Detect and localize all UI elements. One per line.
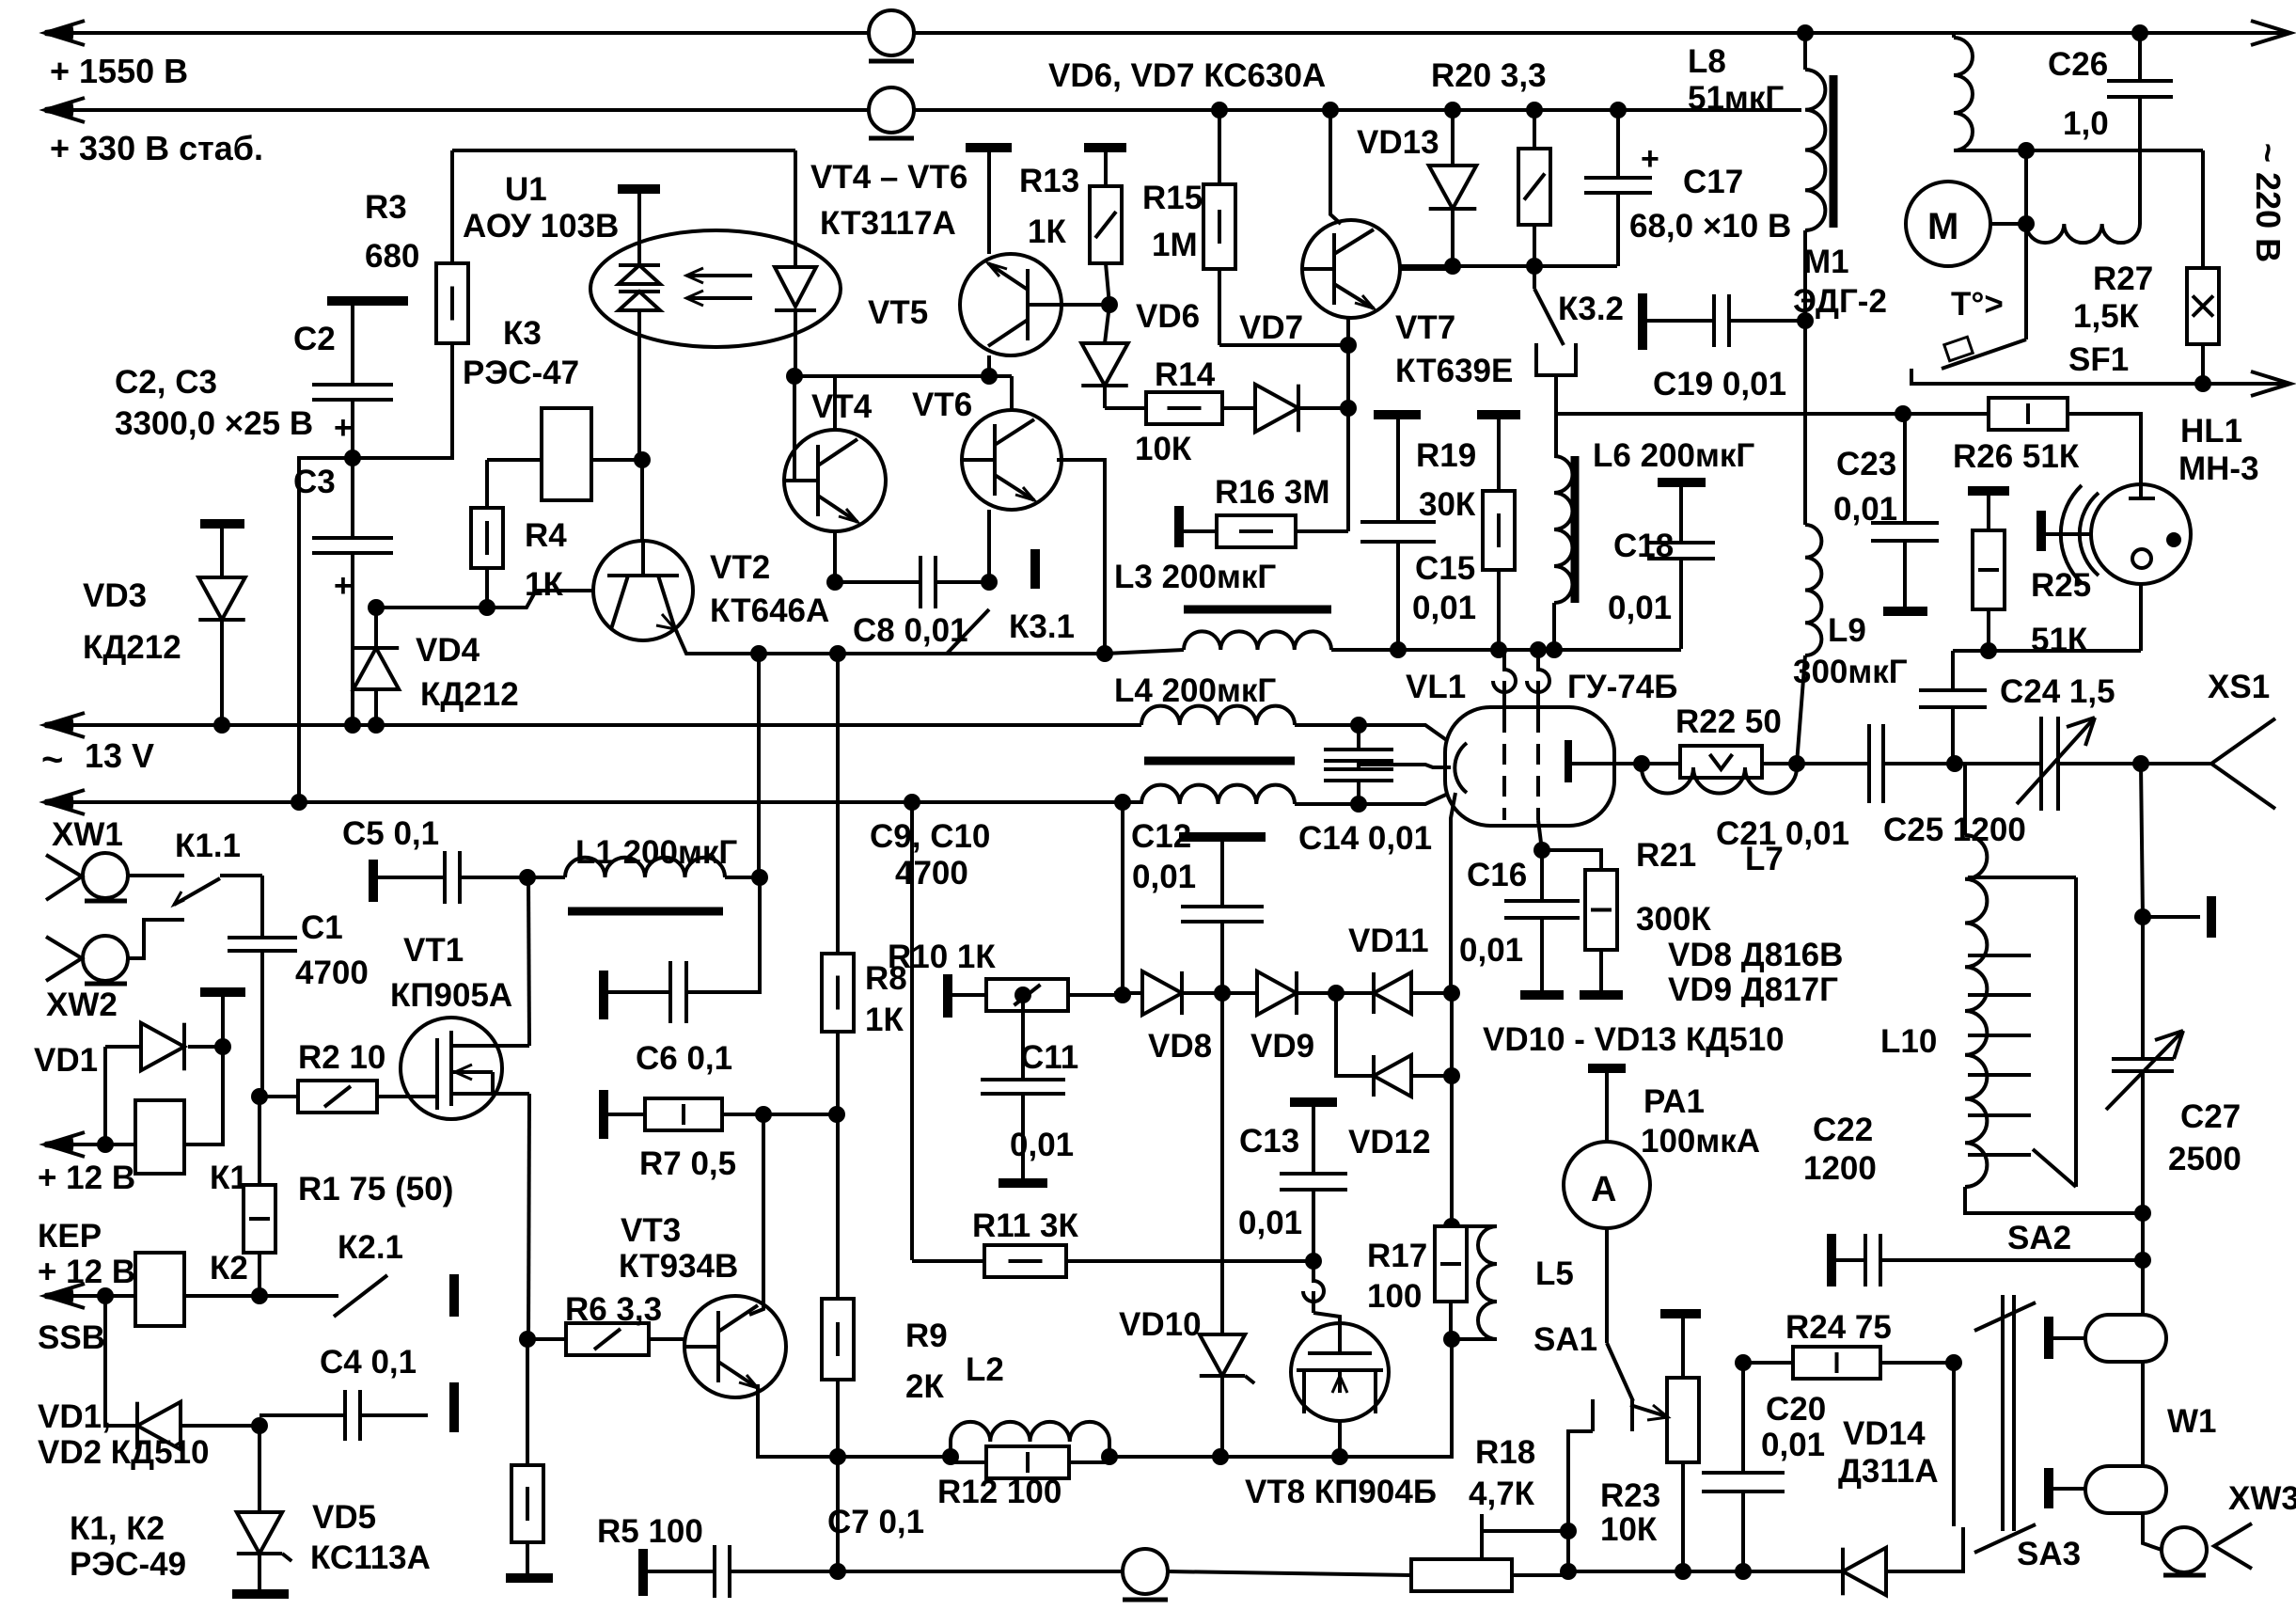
- wire VT3 collector: [749, 1114, 763, 1315]
- svg-text:R2 10: R2 10: [298, 1039, 385, 1076]
- junction: [1328, 985, 1345, 1002]
- chassis bar top right: [2143, 915, 2200, 919]
- svg-text:R22 50: R22 50: [1675, 703, 1782, 740]
- junction: [1675, 1563, 1691, 1580]
- transistor VT1: [401, 1018, 502, 1119]
- wire SA1 down: [1568, 1431, 1593, 1571]
- svg-text:С2, С3: С2, С3: [115, 364, 217, 401]
- svg-text:L10: L10: [1880, 1023, 1937, 1060]
- motor winding horizontal: [2026, 224, 2140, 243]
- junction: [344, 717, 361, 734]
- svg-text:R11 3К: R11 3К: [972, 1207, 1078, 1244]
- svg-text:SA1: SA1: [1533, 1321, 1597, 1358]
- junction: [828, 1106, 845, 1123]
- motor M1: [2024, 150, 2028, 224]
- svg-text:L6 200мкГ: L6 200мкГ: [1593, 437, 1754, 474]
- svg-text:+ 1550 В: + 1550 В: [50, 52, 188, 90]
- resistor R14: [1105, 406, 1146, 410]
- svg-text:R13: R13: [1019, 163, 1079, 199]
- inductor L4 top winding: [1141, 706, 1295, 725]
- svg-text:МН-3: МН-3: [2178, 450, 2259, 487]
- wire +12 KEP: [45, 1143, 135, 1146]
- transistor VT8: [1313, 1313, 1340, 1323]
- arrow right 220V bottom: [2251, 371, 2290, 396]
- inductor L1: [527, 876, 565, 879]
- grid2 feedthrough loop: [1527, 650, 1549, 692]
- svg-text:VD3: VD3: [83, 577, 147, 614]
- svg-text:КТ646А: КТ646А: [710, 592, 829, 629]
- neon lamp HL1: [2091, 484, 2191, 584]
- junction: [97, 1136, 114, 1153]
- svg-text:R24 75: R24 75: [1785, 1309, 1892, 1346]
- junction: [97, 1287, 114, 1304]
- wire VD1 to +12: [103, 1047, 107, 1144]
- svg-text:С27: С27: [2180, 1098, 2241, 1135]
- svg-text:VD4: VD4: [416, 632, 480, 669]
- wire grid line to L3: [1105, 650, 1184, 654]
- U1 photodiode: [775, 267, 816, 307]
- wire bottom bus 2: [1168, 1571, 1411, 1575]
- junction: [942, 1448, 959, 1465]
- wire C3 top: [351, 458, 354, 538]
- svg-text:L9: L9: [1828, 612, 1866, 649]
- junction: [826, 574, 843, 591]
- svg-text:С9, С10: С9, С10: [870, 818, 990, 855]
- svg-text:0,01: 0,01: [1761, 1427, 1825, 1463]
- junction: [1114, 794, 1131, 811]
- wire VT5 base: [1062, 303, 1109, 307]
- resistor R5: [526, 1339, 529, 1465]
- svg-text:К3.2: К3.2: [1558, 291, 1624, 327]
- junction: [1014, 987, 1031, 1003]
- svg-text:W1: W1: [2167, 1403, 2217, 1440]
- thermal switch SF1: [2024, 224, 2028, 339]
- svg-text:SA2: SA2: [2007, 1220, 2071, 1256]
- wire screen reg base line: [1400, 264, 1617, 268]
- svg-text:0,01: 0,01: [1132, 859, 1196, 895]
- resistor R27: [2201, 150, 2205, 268]
- junction: [1945, 1354, 1962, 1371]
- svg-text:R15: R15: [1142, 180, 1203, 216]
- VL1 bottom screen lead: [1538, 820, 1542, 850]
- L1 core: [568, 908, 723, 916]
- svg-text:С4 0,1: С4 0,1: [320, 1344, 417, 1381]
- junction: [2018, 215, 2035, 232]
- svg-text:К2.1: К2.1: [338, 1229, 403, 1266]
- junction: [1443, 1067, 1460, 1084]
- svg-text:VD9 Д817Г: VD9 Д817Г: [1668, 971, 1838, 1008]
- capacitor C13: [1290, 1097, 1337, 1107]
- resistor R1: [258, 1097, 261, 1185]
- svg-text:1К: 1К: [865, 1002, 904, 1038]
- grid1 feedthrough loop: [1493, 650, 1516, 692]
- resistor R3: [450, 150, 454, 263]
- junction: [1797, 24, 1814, 41]
- wire HL1 line: [1903, 412, 1989, 416]
- junction: [2134, 1252, 2151, 1269]
- diode VD6: [1105, 305, 1109, 343]
- svg-text:L1 200мкГ: L1 200мкГ: [575, 834, 737, 871]
- svg-text:XW3: XW3: [2228, 1480, 2296, 1517]
- svg-text:VD1: VD1: [34, 1042, 98, 1079]
- capacitor C3: [312, 536, 393, 540]
- svg-text:С24 1,5: С24 1,5: [2000, 673, 2115, 710]
- switch SA2: [2074, 877, 2078, 1187]
- svg-text:КТ3117А: КТ3117А: [820, 205, 956, 242]
- wire 220V bottom: [1911, 369, 2203, 384]
- chassis bar R21: [1580, 990, 1623, 1000]
- svg-text:С5 0,1: С5 0,1: [342, 815, 439, 852]
- inductor L3: [1184, 606, 1331, 614]
- svg-text:М1: М1: [1803, 244, 1849, 280]
- wire VT2e to L1 node: [757, 654, 761, 877]
- resistor R13: [1084, 143, 1126, 152]
- switch K1.1: [128, 874, 184, 877]
- wire to W1: [2141, 1213, 2145, 1315]
- svg-text:51мкГ: 51мкГ: [1688, 80, 1784, 117]
- svg-text:VD13: VD13: [1357, 124, 1439, 161]
- svg-text:~ 220 В: ~ 220 В: [2249, 143, 2288, 262]
- wire C3 bottom: [351, 553, 354, 725]
- wire VT4 collector: [833, 376, 837, 430]
- svg-text:R14: R14: [1155, 356, 1216, 393]
- junction: [1350, 796, 1367, 813]
- svg-text:R18: R18: [1475, 1434, 1535, 1471]
- resistor R9: [836, 1114, 840, 1299]
- junction: [1895, 405, 1911, 422]
- svg-text:С25 1200: С25 1200: [1883, 812, 2026, 848]
- junction: [1546, 641, 1563, 658]
- junction: [829, 645, 846, 662]
- capacitor C22: [1827, 1234, 1836, 1286]
- junction: [368, 599, 385, 616]
- svg-text:R5 100: R5 100: [597, 1513, 703, 1550]
- diode VD7: [1222, 406, 1255, 410]
- svg-text:+ 12 В: + 12 В: [38, 1254, 135, 1290]
- junction: [1560, 1523, 1577, 1539]
- diode VD8: [1114, 991, 1142, 995]
- relay K3 coil: [542, 408, 591, 500]
- wire cathode mid tap: [1393, 765, 1451, 767]
- junction: [1443, 985, 1460, 1002]
- wire bottom bus 1: [838, 1570, 1123, 1573]
- inductor L2: [949, 1442, 952, 1457]
- capacitor C11 body: [981, 1078, 1065, 1081]
- svg-text:51К: 51К: [2031, 622, 2088, 658]
- relay K2: [135, 1253, 184, 1326]
- svg-text:VD10: VD10: [1119, 1306, 1202, 1343]
- switch K3.1: [947, 609, 989, 654]
- wire heater bottom: [1295, 802, 1359, 806]
- svg-text:+: +: [334, 568, 353, 604]
- capacitor C9: [1357, 725, 1360, 750]
- svg-text:VT1: VT1: [403, 932, 464, 969]
- wire VT4 emitter: [833, 531, 837, 582]
- svg-text:4700: 4700: [295, 955, 369, 991]
- chassis bar C23: [1883, 607, 1927, 616]
- svg-text:R16 3М: R16 3М: [1215, 474, 1330, 511]
- junction: [519, 1331, 536, 1348]
- junction: [1788, 755, 1805, 772]
- junction: [2018, 142, 2035, 159]
- resistor R24: [1743, 1361, 1793, 1365]
- svg-text:VD11: VD11: [1348, 923, 1429, 959]
- wire VT2 base: [376, 591, 593, 608]
- inductor L10: [1963, 764, 1967, 835]
- wire bottom bus 3: [1512, 1571, 1683, 1575]
- junction: [1340, 400, 1357, 417]
- switch SA1: [1605, 1228, 1609, 1343]
- svg-text:РЭС-47: РЭС-47: [463, 355, 579, 391]
- connector W1 lower: [2141, 1362, 2145, 1466]
- wire anode line 2: [1883, 762, 2041, 766]
- wire: [1451, 266, 1455, 269]
- svg-text:ЭДГ-2: ЭДГ-2: [1793, 283, 1887, 320]
- svg-text:R6 3,3: R6 3,3: [565, 1291, 662, 1328]
- svg-text:10К: 10К: [1135, 431, 1192, 467]
- svg-text:0,01: 0,01: [1608, 590, 1672, 626]
- junction: [1610, 102, 1627, 118]
- capacitor C17: [1616, 110, 1620, 178]
- svg-text:VT8 КП904Б: VT8 КП904Б: [1245, 1474, 1437, 1510]
- svg-text:2500: 2500: [2168, 1141, 2241, 1177]
- relay K1: [135, 1100, 184, 1174]
- inductor L4 bottom winding: [1141, 785, 1295, 804]
- L10 taps: [1968, 876, 2031, 879]
- svg-text:С26: С26: [2048, 46, 2108, 83]
- arrow left 13V-1: [45, 713, 85, 737]
- svg-text:С6 0,1: С6 0,1: [636, 1040, 732, 1077]
- junction: [1212, 1448, 1229, 1465]
- wire anode line: [1762, 762, 1869, 766]
- svg-text:С21 0,01: С21 0,01: [1716, 815, 1849, 852]
- connector W1 upper: [2085, 1315, 2166, 1362]
- svg-text:0,01: 0,01: [1238, 1205, 1302, 1241]
- arrow left 1550: [45, 21, 85, 45]
- wire VT3 emitter line: [838, 1455, 951, 1459]
- capacitor C7: [638, 1549, 648, 1596]
- svg-text:U1: U1: [505, 171, 547, 208]
- transistor VT5: [966, 143, 1012, 152]
- U1 input LED: [618, 184, 660, 194]
- wire +330V bus: [45, 108, 1801, 112]
- chassis bar C16: [1520, 990, 1564, 1000]
- junction: [1096, 645, 1113, 662]
- wire K1 right: [184, 1047, 223, 1144]
- junction: [1735, 1354, 1752, 1371]
- wire cathode column to R17: [1450, 993, 1454, 1226]
- chassis bar C11: [999, 1178, 1047, 1188]
- svg-text:R1 75 (50): R1 75 (50): [298, 1171, 453, 1207]
- junction: [755, 1106, 772, 1123]
- resistor R8: [836, 654, 840, 954]
- connector XW1: [46, 855, 82, 900]
- wire VT1 drain up: [528, 877, 529, 1046]
- resistor R16: [1174, 506, 1184, 547]
- svg-text:300К: 300К: [1636, 901, 1711, 938]
- wire R3 to U1: [452, 149, 795, 152]
- wire grid line: [1331, 648, 1681, 652]
- svg-text:КД212: КД212: [420, 676, 519, 713]
- svg-text:VD12: VD12: [1348, 1124, 1431, 1160]
- wire to HL1: [2068, 414, 2141, 484]
- wire K2 right: [184, 1294, 259, 1298]
- wire heater top: [1295, 723, 1359, 727]
- junction: [2131, 24, 2148, 41]
- svg-text:100: 100: [1367, 1278, 1422, 1315]
- tube VL1 envelope: [1445, 707, 1614, 826]
- wire antenna column: [2141, 764, 2143, 917]
- arrow right 220V top: [2251, 21, 2290, 45]
- wire SA3 left: [1952, 1363, 1956, 1526]
- switch K2.1: [259, 1294, 338, 1298]
- svg-text:КС113А: КС113А: [310, 1539, 431, 1576]
- svg-text:3300,0 ×25 В: 3300,0 ×25 В: [115, 405, 313, 442]
- svg-text:L4 200мкГ: L4 200мкГ: [1114, 672, 1276, 709]
- svg-text:+ 330 В стаб.: + 330 В стаб.: [50, 129, 263, 167]
- svg-text:R17: R17: [1367, 1238, 1427, 1274]
- svg-text:РА1: РА1: [1643, 1083, 1705, 1120]
- junction: [1980, 642, 1997, 659]
- junction: [1533, 842, 1550, 859]
- svg-text:1,5К: 1,5К: [2073, 298, 2140, 335]
- zener VD5: [258, 1426, 261, 1512]
- capacitor C4: [259, 1413, 345, 1417]
- svg-text:R10 1К: R10 1К: [888, 939, 996, 975]
- svg-text:R27: R27: [2093, 260, 2153, 297]
- node C2-C3: [344, 450, 361, 466]
- svg-text:С16: С16: [1467, 857, 1527, 893]
- wire SSB rail: [45, 1294, 135, 1298]
- svg-text:VD6: VD6: [1136, 298, 1200, 335]
- junction: [1305, 1253, 1322, 1270]
- wire VT8 to L5: [1340, 1339, 1452, 1457]
- svg-text:VD7: VD7: [1239, 309, 1303, 346]
- connector XS1: [2211, 718, 2275, 809]
- transistor VT2: [640, 460, 644, 541]
- capacitor C5: [369, 860, 378, 902]
- wire VT6 collector: [1010, 376, 1014, 410]
- svg-text:0,01: 0,01: [1010, 1127, 1074, 1163]
- wire 13V bus upper: [45, 723, 1141, 727]
- junction: [2132, 755, 2149, 772]
- junction: [634, 451, 651, 468]
- wire VT7 emitter: [1346, 318, 1350, 531]
- VL1 anode: [1565, 740, 1572, 782]
- svg-text:К1, К2: К1, К2: [70, 1510, 165, 1547]
- svg-text:КП905А: КП905А: [390, 977, 512, 1014]
- svg-text:КТ934В: КТ934В: [619, 1248, 738, 1285]
- HL1 coupling bar: [2037, 511, 2046, 551]
- svg-text:К3: К3: [503, 315, 542, 352]
- junction: [291, 794, 307, 811]
- junction: [1530, 641, 1547, 658]
- svg-text:VL1: VL1: [1406, 669, 1466, 705]
- svg-text:М: М: [1927, 206, 1958, 247]
- wire K3.2 to HL1 line: [1556, 375, 1903, 414]
- diode VD1: [200, 987, 245, 997]
- U1 arrows: [688, 274, 752, 277]
- junction: [1443, 1218, 1460, 1235]
- wire VT6 base to grid line: [1057, 460, 1105, 654]
- capacitor C21: [1867, 724, 1871, 803]
- svg-text:1200: 1200: [1803, 1150, 1877, 1187]
- svg-text:2К: 2К: [905, 1368, 944, 1405]
- svg-text:+: +: [334, 410, 353, 446]
- svg-text:HL1: HL1: [2180, 413, 2242, 450]
- svg-text:XW1: XW1: [52, 816, 123, 853]
- svg-text:С22: С22: [1813, 1112, 1873, 1148]
- wire K3 left: [487, 458, 542, 462]
- wire bus to SA3: [1886, 1527, 1963, 1571]
- junction: [1214, 985, 1231, 1002]
- svg-text:R21: R21: [1636, 837, 1696, 874]
- arrow +12 KEP: [45, 1132, 85, 1157]
- svg-text:1К: 1К: [1028, 213, 1066, 250]
- diode VD11: [1374, 972, 1411, 1014]
- svg-text:АОУ 103В: АОУ 103В: [463, 208, 619, 245]
- L4 core: [1144, 757, 1295, 766]
- VL1 grid2 dashed: [1536, 712, 1540, 820]
- L8 core: [1830, 75, 1838, 228]
- inductor L7: [1642, 767, 1797, 793]
- wire anode step: [1642, 762, 1680, 766]
- junction: [751, 869, 768, 886]
- svg-text:R23: R23: [1600, 1477, 1660, 1514]
- wire L10 bottom: [1965, 1187, 2143, 1213]
- diode VD14: [1743, 1570, 1843, 1573]
- svg-text:+ 12 В: + 12 В: [38, 1160, 135, 1196]
- capacitor C19: [1803, 230, 1807, 321]
- ground bar VD5: [232, 1589, 289, 1599]
- inductor L5: [1478, 1226, 1497, 1339]
- junction: [829, 1563, 846, 1580]
- svg-text:КД212: КД212: [83, 629, 181, 666]
- resistor R18: [1411, 1559, 1512, 1591]
- svg-text:1,0: 1,0: [2063, 105, 2109, 142]
- svg-text:L8: L8: [1688, 43, 1726, 80]
- svg-text:10К: 10К: [1600, 1511, 1658, 1548]
- svg-text:+: +: [1641, 141, 1659, 177]
- junction: [1444, 102, 1461, 118]
- capacitor C2: [327, 296, 408, 306]
- svg-text:VD14: VD14: [1843, 1415, 1926, 1452]
- svg-text:L5: L5: [1535, 1255, 1574, 1292]
- wire cathode down: [1451, 793, 1455, 993]
- svg-text:VD8: VD8: [1148, 1028, 1212, 1065]
- wire L1 out: [725, 876, 760, 879]
- svg-text:С11: С11: [1020, 1039, 1078, 1076]
- junction: [1340, 337, 1357, 354]
- wire to VT8: [1109, 1455, 1340, 1459]
- junction: [1101, 296, 1118, 313]
- junction: [829, 1448, 846, 1465]
- resistor R12: [986, 1446, 1069, 1478]
- arrow left 13V-2: [45, 790, 85, 814]
- wire K3 to node: [591, 458, 642, 462]
- junction: [904, 794, 920, 811]
- junction: [251, 1088, 268, 1105]
- svg-text:С20: С20: [1766, 1391, 1826, 1428]
- junction: [1444, 258, 1461, 275]
- resistor R11: [912, 1259, 984, 1263]
- svg-text:13 V: 13 V: [85, 736, 154, 775]
- wire HL1 bottom: [2139, 584, 2143, 651]
- svg-text:VT4 – VT6: VT4 – VT6: [810, 159, 967, 196]
- resistor R26: [1989, 398, 2068, 430]
- wire anode line 3: [2058, 762, 2211, 766]
- junction: [1114, 987, 1131, 1003]
